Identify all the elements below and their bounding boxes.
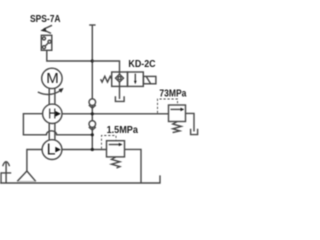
solenoid of KD-2C [144, 76, 156, 83]
pump L [42, 140, 62, 160]
strainer [17, 171, 36, 181]
wire: pressure switch sensing line to main line [47, 50, 93, 61]
wire: branch to valve KD-2C [92, 61, 119, 72]
pilot line of 1.5MPa valve (dashed) [102, 136, 117, 149]
svg-text:1.5MPa: 1.5MPa [107, 125, 139, 136]
svg-text:SPS-7A: SPS-7A [30, 14, 61, 25]
wire: L pump suction line [27, 150, 42, 172]
svg-text:73MPa: 73MPa [159, 89, 186, 100]
junction node: H suction loop [91, 133, 94, 136]
shaft: motor to pump H [49, 88, 55, 104]
check valve lower [89, 121, 96, 130]
spring of 73MPa valve [173, 122, 182, 133]
valve KD-2C check position (diamond with ball) [116, 72, 124, 86]
breather / filler symbol [1, 162, 11, 184]
check valve upper [89, 99, 96, 108]
relief valve 1.5MPa [107, 141, 125, 157]
junction node: H discharge [91, 112, 94, 115]
relief valve 73MPa [169, 105, 186, 122]
rotation arrow under motor [38, 88, 64, 94]
svg-text:KD-2C: KD-2C [128, 59, 156, 70]
valve KD-2C open position (down arrow) [134, 74, 137, 85]
tank line [0, 175, 160, 183]
svg-text:L: L [47, 141, 56, 158]
tank symbol under KD-2C [115, 96, 124, 101]
shaft: pump H to pump L [49, 124, 55, 140]
pump H [43, 104, 62, 123]
wire: KD-2C drain to tank [119, 86, 121, 99]
motor M [42, 68, 62, 88]
svg-text:H: H [48, 105, 56, 122]
pilot line of 73MPa valve (dashed) [158, 99, 178, 113]
spring of 1.5MPa valve [112, 157, 120, 168]
wire: H pump discharge line to relief valve 73MPa [62, 113, 169, 115]
junction node: L discharge [91, 148, 94, 151]
wire: H pump left port loop to main line (with hop over shaft) [23, 114, 92, 135]
junction node: top tap [91, 59, 94, 62]
main pressure line (vertical) with plugged top port [89, 25, 95, 150]
wire: L pump discharge line to relief valve 1.5MPa [62, 149, 107, 151]
tank symbol under 73MPa outlet [191, 129, 198, 135]
wire: 1.5MPa outlet to tank line [125, 149, 142, 183]
svg-text:M: M [46, 70, 59, 87]
wire: 73MPa outlet to tank [186, 113, 195, 131]
spring of KD-2C [101, 76, 112, 82]
valve KD-2C body [112, 72, 144, 86]
pressure switch SPS-7A [41, 25, 52, 50]
